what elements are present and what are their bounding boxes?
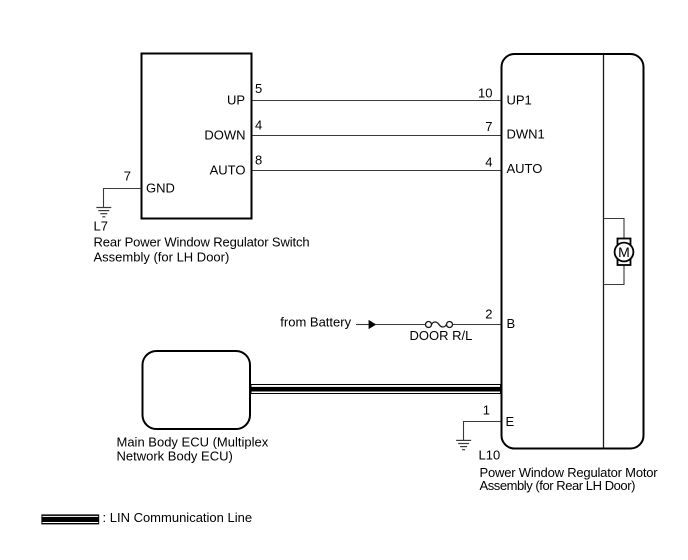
svg-text:M: M: [618, 244, 630, 260]
switch assembly box L7: [142, 54, 252, 219]
svg-text:8: 8: [255, 152, 262, 167]
Main Body ECU box: [143, 351, 251, 429]
svg-text:L7: L7: [94, 219, 108, 234]
svg-text:7: 7: [485, 119, 492, 134]
svg-text:DOWN: DOWN: [204, 128, 245, 143]
motor assembly box L10: [502, 54, 644, 449]
ground symbol L10: [456, 440, 471, 449]
wire fuse to terminal B: [453, 324, 501, 326]
svg-text:5: 5: [255, 81, 262, 96]
svg-text:Assembly (for LH Door): Assembly (for LH Door): [94, 249, 230, 264]
svg-text:AUTO: AUTO: [210, 163, 246, 178]
svg-text:L10: L10: [479, 448, 501, 463]
LIN communication line ECU to motor assembly: [251, 385, 501, 394]
svg-text:10: 10: [478, 86, 492, 101]
wire AUTO pin8 to pin4: [253, 170, 501, 172]
wire UP pin5 to pin10: [253, 100, 501, 102]
svg-text:Main Body ECU (Multiplex: Main Body ECU (Multiplex: [117, 435, 269, 450]
motor assembly inner partition line: [603, 54, 605, 449]
svg-text:DWN1: DWN1: [507, 127, 545, 142]
from Battery arrow: [356, 320, 376, 329]
svg-text:1: 1: [483, 403, 490, 418]
motor branch wire bottom: [604, 264, 625, 285]
svg-text:AUTO: AUTO: [507, 161, 543, 176]
motor M1: [615, 239, 634, 266]
svg-text:4: 4: [255, 118, 262, 133]
svg-text:7: 7: [124, 169, 131, 184]
svg-text:UP1: UP1: [507, 92, 532, 107]
svg-text:Rear Power Window Regulator Sw: Rear Power Window Regulator Switch: [94, 235, 310, 250]
svg-text:B: B: [507, 316, 516, 331]
svg-text:DOOR R/L: DOOR R/L: [410, 328, 473, 343]
ground symbol L7: [96, 208, 111, 217]
svg-text:from Battery: from Battery: [280, 315, 351, 330]
svg-text:4: 4: [485, 155, 492, 170]
svg-text:E: E: [506, 414, 515, 429]
motor branch wire top: [604, 219, 625, 240]
svg-text:: LIN Communication Line: : LIN Communication Line: [103, 510, 253, 525]
wire terminal E to ground: [464, 422, 501, 441]
wire battery to fuse: [376, 324, 426, 326]
wire GND pin7 to ground: [104, 189, 142, 208]
legend LIN bar: [41, 514, 99, 524]
svg-text:UP: UP: [227, 93, 245, 108]
fuse DOOR R/L: [426, 322, 453, 328]
wire DOWN pin4 to pin7: [253, 135, 501, 137]
svg-text:GND: GND: [146, 180, 175, 195]
svg-text:Network Body ECU): Network Body ECU): [117, 449, 233, 464]
svg-text:Assembly (for Rear LH Door): Assembly (for Rear LH Door): [480, 478, 636, 493]
svg-text:2: 2: [485, 307, 492, 322]
